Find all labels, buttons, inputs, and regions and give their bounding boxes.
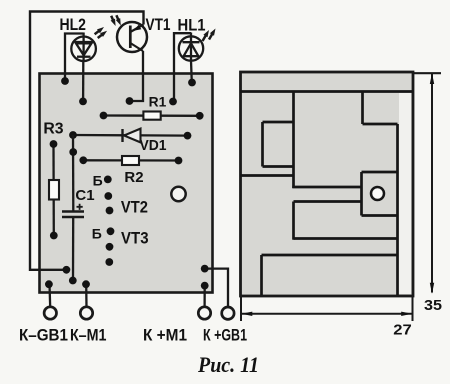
node: K-GB1 pad [45,280,53,288]
wire: HL1 bottom lead to board [190,61,193,83]
PCB board (component side) [40,74,213,293]
dimension line 35 (vertical) [431,74,433,293]
dimension arrow up [430,73,434,84]
foil trace line: inner box left [261,122,264,167]
dimension extension line bottom right [412,297,414,322]
node: HL1 lead pad left [169,98,177,106]
wire: HL1 left lead to board [174,33,191,101]
node: HL2 lead pad bottom [79,98,87,106]
terminal K+M1 [198,307,210,319]
resistor R3 [52,144,55,236]
node: R1 right pad [196,112,204,120]
wire: HL2 anode lead to board [65,34,84,82]
LED HL1 [179,33,203,62]
LED HL2 [71,33,96,62]
svg-text:К–М1: К–М1 [70,327,107,345]
resistor R1 [104,114,200,117]
node: VT2 pad 3 [106,207,114,215]
foil trace line: top band [240,90,413,93]
svg-text:Б: Б [93,173,103,189]
node: VT2 pad 2 [104,192,112,200]
foil: light right channel [399,93,411,294]
foil trace line: right column vertical [396,124,399,295]
foil trace line: top right horizontal [363,123,398,126]
wire: VT1 emitter to top frame, left side down to board [30,12,144,270]
dimension line 27 (horizontal) [242,313,413,315]
foil pad box top [362,171,398,174]
svg-text:VT3: VT3 [121,229,149,248]
svg-text:К +GB1: К +GB1 [203,327,247,345]
foil trace line: lower divider [294,237,398,240]
foil trace line: inner box top [263,121,294,124]
svg-text:R3: R3 [43,121,63,138]
dimension arrow left [241,312,252,316]
node: VT3 pad 3 [105,258,113,266]
svg-text:R1: R1 [149,95,167,110]
node: VT2 base pad [104,176,112,184]
node: C1 top pad [69,148,77,156]
dimension extension line top [414,72,442,74]
svg-text:35: 35 [424,298,442,314]
svg-text:HL1: HL1 [178,17,206,35]
wire: HL2 cathode lead to board [82,61,85,101]
node: VD1 right pad [184,132,192,140]
svg-text:HL2: HL2 [59,16,86,34]
foil pad hole [371,187,384,200]
foil trace line: pad channel top [292,186,361,189]
node: R2 left pad [79,156,87,164]
foil pad box left [360,172,363,216]
foil trace line: inner box bottom [263,165,294,168]
capacitor C1 [72,135,75,211]
node: VD1 left pad [69,131,77,139]
node: R2 right pad [175,157,183,165]
svg-text:Б: Б [92,226,102,242]
svg-text:VT2: VT2 [121,198,148,217]
node: VT3 base pad [107,227,115,235]
foil trace line: left divider [240,174,294,177]
foil trace line: bottom divider [262,254,398,257]
VT1 incoming light rays [111,15,121,26]
foil trace line: top right vertical [361,91,364,125]
mounting hole on component board [171,187,185,201]
HL1 light rays [203,29,216,42]
node: R3 bottom pad [50,232,58,240]
svg-text:К +М1: К +М1 [143,327,187,345]
dimension extension line bottom left [240,297,242,322]
svg-text:Рис. 11: Рис. 11 [197,352,259,377]
foil trace line: main vertical [292,91,295,189]
wire: K-GB1 terminal lead [48,284,51,307]
node: K+M1 pad [201,282,209,290]
svg-text:VT1: VT1 [146,16,171,34]
node: C1 bottom pad [69,277,77,285]
node: R3 top pad [50,140,58,148]
node: K+GB1 pad [201,265,209,273]
VT1 emitter arrow (points to base) [133,25,141,31]
HL2 light rays [95,27,108,38]
node: frame wire pad [63,266,71,274]
PCB foil pattern board [241,72,414,296]
wire: K-M1 terminal lead [85,284,88,307]
node: VT3 pad 2 [106,243,114,251]
wire: VT1 collector down into board [130,51,144,101]
svg-text:C1: C1 [75,187,94,204]
wire: K+GB1 terminal lead [205,269,228,308]
transistor VT1 (phototransistor) [117,22,147,52]
resistor R2 [83,159,178,161]
terminal K+GB1 [222,307,234,319]
svg-text:VD1: VD1 [140,137,167,154]
node: K-M1 pad [82,280,90,288]
terminal K-GB1 [44,307,56,319]
foil trace line: mid vertical [292,202,295,240]
node: VT1 collector pad [126,97,134,105]
foil trace line: pad channel bottom [294,200,362,203]
svg-text:R2: R2 [124,169,143,186]
foil pad box bottom [362,214,398,217]
node: HL1 lead pad bottom [188,79,196,87]
C1 plus sign [77,204,83,210]
svg-text:К–GB1: К–GB1 [19,327,68,345]
svg-text:27: 27 [393,323,412,339]
dimension arrow down [430,283,434,294]
wire: K+M1 terminal lead [203,286,205,308]
node: R1 left pad [100,112,108,120]
terminal K-M1 [80,307,92,319]
foil trace line: bottom left vertical [260,255,263,295]
node: HL2 lead pad left [61,77,69,85]
dimension arrow right [401,312,412,316]
diode VD1 [73,134,188,137]
